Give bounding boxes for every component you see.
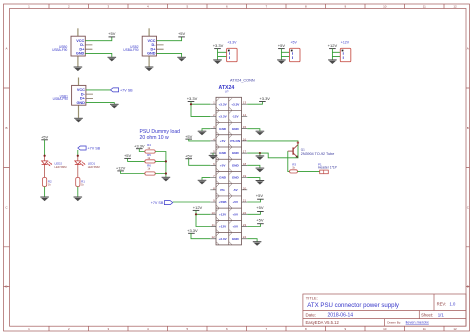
svg-text:PSU Dummy load: PSU Dummy load bbox=[140, 129, 181, 135]
pin LED2 cathode to R2 bbox=[44, 165, 46, 178]
ground (USB0 GND pin) bbox=[108, 57, 117, 61]
wire +3.3V to pin1 and pin2 bbox=[191, 102, 210, 117]
net flag +7V SB (ATX pin 9) bbox=[151, 201, 173, 205]
svg-text:10: 10 bbox=[383, 4, 387, 8]
resistor R5 bbox=[145, 153, 155, 163]
svg-text:GND: GND bbox=[232, 163, 240, 167]
wire pin15 GND bbox=[247, 129, 260, 131]
usb connector USB0 bbox=[52, 28, 92, 66]
text PSU dummy load note bbox=[140, 129, 181, 141]
svg-text:PG: PG bbox=[220, 188, 225, 192]
svg-text:GND: GND bbox=[219, 176, 227, 180]
wire USB2 GND to ground bbox=[157, 53, 182, 57]
node junction LED2 bbox=[44, 155, 46, 157]
wire pin17 gnd stub bbox=[259, 153, 261, 156]
svg-text:+3.3V: +3.3V bbox=[187, 96, 198, 101]
wire +5V to R5 bbox=[128, 158, 145, 161]
svg-text:12: 12 bbox=[211, 235, 215, 239]
resistor R4 bbox=[145, 143, 155, 153]
node junction Q1 collector bbox=[297, 142, 299, 144]
svg-text:USBA-F90: USBA-F90 bbox=[53, 97, 68, 101]
svg-text:24: 24 bbox=[243, 235, 247, 239]
svg-text:GND: GND bbox=[76, 101, 85, 105]
wire +3.3V to pin12 bbox=[191, 233, 210, 238]
ground (USB2 shell) bbox=[145, 67, 154, 71]
svg-text:+12V: +12V bbox=[193, 205, 203, 210]
connector J1 +3.3V binding post bbox=[227, 41, 238, 62]
svg-text:+5V: +5V bbox=[256, 205, 264, 210]
svg-text:+12V: +12V bbox=[219, 212, 227, 216]
title block bbox=[303, 294, 466, 326]
svg-text:+7V SB: +7V SB bbox=[88, 146, 101, 150]
ground (ATX pin 3) bbox=[198, 131, 207, 135]
svg-text:Sheet:: Sheet: bbox=[421, 313, 433, 318]
ground (ATX pin 15) bbox=[256, 131, 265, 135]
svg-text:+5V: +5V bbox=[185, 134, 193, 139]
resistor R6 bbox=[145, 163, 155, 175]
ground (ATX pin 19) bbox=[256, 181, 265, 185]
wire pin7 GND bbox=[202, 178, 210, 180]
wire USB0 VCC to +5V bbox=[85, 37, 112, 41]
power +5V (USB0) bbox=[108, 31, 116, 37]
wire USB2 VCC to +5V bbox=[157, 37, 182, 41]
svg-text:11: 11 bbox=[423, 4, 426, 8]
ground (USB1 shell) bbox=[74, 118, 83, 122]
svg-text:GND: GND bbox=[232, 176, 240, 180]
resistor R1 bbox=[76, 178, 86, 187]
svg-text:GND: GND bbox=[232, 127, 240, 131]
wire R3 to P1 bbox=[297, 170, 319, 172]
net flag +7V SB (USB1) bbox=[111, 88, 134, 92]
svg-text:GND: GND bbox=[232, 151, 240, 155]
svg-text:+5V: +5V bbox=[220, 139, 227, 143]
ground (ATX pin 18) bbox=[256, 168, 265, 172]
power +5V (USB2) bbox=[178, 31, 186, 37]
wire +5V post bbox=[281, 49, 289, 60]
LED LED2 bbox=[42, 161, 68, 169]
wire +3.3V to R4 bbox=[139, 149, 145, 152]
connector J2 +5V binding post bbox=[290, 41, 301, 62]
ground (LED2 string) bbox=[40, 197, 49, 201]
svg-text:+7V SB: +7V SB bbox=[120, 88, 133, 92]
svg-text:Drawn By:: Drawn By: bbox=[387, 320, 401, 324]
svg-text:ATX24_CONN: ATX24_CONN bbox=[230, 79, 255, 83]
wire pin21 to +5V bbox=[247, 199, 260, 202]
pin LED1 cathode to R1 bbox=[77, 165, 79, 178]
svg-text:GND: GND bbox=[232, 237, 240, 241]
usb connector USB1 bbox=[53, 78, 93, 118]
svg-text:11: 11 bbox=[423, 327, 426, 331]
node junction R6 common bbox=[165, 172, 167, 174]
svg-text:+3.3V: +3.3V bbox=[219, 237, 228, 241]
svg-text:REV:: REV: bbox=[437, 302, 447, 307]
wire pin22 to +5V bbox=[247, 212, 260, 215]
wire pin9 +5SB bbox=[173, 201, 211, 203]
power +3.3V (ATX pin 13) bbox=[259, 96, 270, 101]
svg-text:U?: U? bbox=[225, 89, 229, 93]
svg-text:A: A bbox=[467, 47, 469, 51]
svg-text:Q1: Q1 bbox=[301, 147, 305, 151]
svg-text:-12V: -12V bbox=[232, 115, 239, 119]
wire +5V to LED2 bbox=[44, 140, 46, 156]
svg-text:14: 14 bbox=[243, 113, 247, 117]
wire pin24 GND bbox=[247, 239, 257, 242]
pin LED1 anode bbox=[77, 156, 79, 161]
power +5V (ATX pin 4) bbox=[185, 134, 193, 139]
power +5V (LED2) bbox=[41, 135, 49, 140]
svg-text:16: 16 bbox=[243, 137, 247, 141]
svg-text:+3.3V: +3.3V bbox=[219, 115, 228, 119]
svg-text:lieven.merckx: lieven.merckx bbox=[406, 320, 429, 324]
transistor Q1 2N3904 bbox=[288, 145, 334, 158]
wire +5V to pin6 bbox=[189, 159, 211, 166]
wire +3.3V post bbox=[218, 49, 227, 60]
svg-text:23: 23 bbox=[243, 223, 247, 227]
wire pin5 GND bbox=[212, 153, 214, 155]
svg-text:ATX PSU connector power supply: ATX PSU connector power supply bbox=[307, 302, 400, 309]
svg-text:A: A bbox=[5, 47, 7, 51]
svg-text:1/1: 1/1 bbox=[438, 313, 445, 318]
svg-text:10: 10 bbox=[211, 211, 215, 215]
wire pin18 GND bbox=[247, 165, 260, 168]
power +12V (dummy load R6) bbox=[116, 166, 126, 171]
power +5V (dummy load R5) bbox=[124, 153, 132, 158]
svg-text:+12V: +12V bbox=[341, 41, 350, 45]
svg-text:22: 22 bbox=[243, 211, 247, 215]
svg-text:USBA-F90: USBA-F90 bbox=[123, 48, 138, 52]
svg-text:+5V: +5V bbox=[256, 217, 264, 222]
node junction LED1 bbox=[77, 155, 79, 157]
power +3.3V (output post J1) bbox=[213, 43, 224, 49]
power +3.3V (ATX pins 1-2) bbox=[187, 96, 198, 101]
svg-text:20: 20 bbox=[243, 186, 247, 190]
power +12V (ATX pins 10-11) bbox=[193, 205, 203, 210]
wire USB1 GND to ground bbox=[86, 103, 114, 105]
ground (ATX pin 7) bbox=[198, 180, 207, 184]
ground (post J2) bbox=[277, 60, 286, 64]
svg-text:18: 18 bbox=[243, 162, 247, 166]
svg-text:13: 13 bbox=[243, 101, 247, 105]
wire +12V to pin10 and pin11 bbox=[196, 210, 210, 226]
svg-text:21: 21 bbox=[243, 199, 247, 203]
svg-text:+3.3V: +3.3V bbox=[219, 102, 228, 106]
svg-text:+5V: +5V bbox=[256, 193, 264, 198]
svg-text:+5V: +5V bbox=[41, 135, 49, 140]
wire pin13 to +3.3V bbox=[247, 102, 262, 105]
svg-text:+5V: +5V bbox=[178, 31, 186, 36]
svg-text:+3.3V: +3.3V bbox=[227, 41, 237, 45]
wire Q1 base to R3 bbox=[288, 151, 290, 171]
resistor R3 bbox=[290, 162, 298, 173]
svg-text:+7V SB: +7V SB bbox=[151, 201, 164, 205]
header P1 bbox=[318, 162, 338, 173]
svg-text:+5V: +5V bbox=[220, 163, 227, 167]
svg-text:+5V: +5V bbox=[233, 212, 240, 216]
svg-text:B: B bbox=[467, 126, 469, 130]
usb connector USB2 bbox=[123, 28, 163, 66]
svg-text:+3.3V: +3.3V bbox=[134, 143, 145, 148]
wire +7V SB to LED1 bbox=[77, 150, 79, 156]
svg-text:GND: GND bbox=[219, 151, 227, 155]
svg-text:17: 17 bbox=[243, 150, 247, 154]
svg-text:GND: GND bbox=[219, 127, 227, 131]
wire R2 to ground bbox=[44, 187, 46, 198]
ground (ATX pin 24) bbox=[253, 242, 262, 246]
svg-text:19: 19 bbox=[243, 174, 247, 178]
wire +12V to R6 bbox=[121, 171, 145, 174]
svg-text:12: 12 bbox=[453, 327, 457, 331]
wire R1 to ground bbox=[77, 187, 79, 198]
svg-text:+5SB: +5SB bbox=[219, 200, 228, 204]
svg-text:+5V: +5V bbox=[185, 153, 193, 158]
wire +5V to pin4 bbox=[189, 139, 211, 141]
net flag +7V SB (LED1) bbox=[78, 146, 101, 150]
svg-text:+5V: +5V bbox=[278, 43, 286, 48]
node junction pin10 bbox=[195, 213, 197, 215]
svg-text:+12V: +12V bbox=[219, 225, 227, 229]
resistor R2 bbox=[43, 178, 53, 187]
svg-text:USBA-F90: USBA-F90 bbox=[52, 48, 67, 52]
wire dummy load common bbox=[155, 152, 166, 178]
wire USB0 GND to ground bbox=[85, 53, 112, 57]
svg-text:+5V: +5V bbox=[124, 153, 132, 158]
svg-text:B: B bbox=[5, 126, 7, 130]
ground (post J3) bbox=[328, 60, 337, 64]
svg-text:LED 5MM: LED 5MM bbox=[55, 165, 68, 169]
svg-text:+12V: +12V bbox=[328, 43, 338, 48]
connector U1 ATX24 bbox=[210, 79, 255, 245]
svg-text:+3.3V: +3.3V bbox=[187, 228, 198, 233]
svg-text:TITLE:: TITLE: bbox=[306, 295, 318, 300]
wire pin16 PS-ON loop to pin17 bbox=[247, 141, 298, 158]
svg-text:Header 1*1P: Header 1*1P bbox=[318, 166, 338, 170]
power +5V (output post J2) bbox=[278, 43, 286, 49]
svg-text:+3.3V: +3.3V bbox=[213, 43, 224, 48]
ground (ATX pin 5) bbox=[209, 155, 218, 159]
svg-text:PS-ON: PS-ON bbox=[230, 139, 241, 143]
LED LED1 bbox=[75, 161, 101, 169]
ground (USB0 shell) bbox=[74, 67, 83, 71]
node junction pin17 gnd bbox=[259, 152, 261, 154]
ground (LED1 string) bbox=[74, 197, 83, 201]
power +3.3V (ATX pin 12) bbox=[187, 228, 198, 233]
svg-text:LED1: LED1 bbox=[88, 161, 96, 165]
svg-text:20 ohm 10 w: 20 ohm 10 w bbox=[140, 135, 169, 141]
power +5V (ATX pin 23) bbox=[256, 217, 264, 223]
svg-text:+3.3V: +3.3V bbox=[231, 102, 240, 106]
pin LED2 anode bbox=[44, 156, 46, 161]
svg-text:10: 10 bbox=[383, 327, 387, 331]
svg-text:EasyEDA V5.5.12: EasyEDA V5.5.12 bbox=[306, 320, 340, 325]
svg-text:12: 12 bbox=[453, 4, 457, 8]
node junction pin1 bbox=[190, 103, 192, 105]
svg-text:LED2: LED2 bbox=[55, 161, 63, 165]
svg-text:2N3904 TO-92 Tube: 2N3904 TO-92 Tube bbox=[301, 152, 334, 156]
wire pin3 GND bbox=[202, 129, 210, 131]
wire pin23 to +5V bbox=[247, 224, 260, 227]
svg-text:+5V: +5V bbox=[233, 200, 240, 204]
node junction R5 common bbox=[165, 160, 167, 162]
wire USB1 VCC to +7V SB flag bbox=[86, 89, 111, 91]
svg-text:+12V: +12V bbox=[116, 166, 126, 171]
svg-text:15: 15 bbox=[243, 125, 247, 129]
power +3.3V (dummy load R4) bbox=[134, 143, 145, 148]
wire pin19 GND bbox=[247, 178, 260, 181]
power +5V (ATX pin 6) bbox=[185, 153, 193, 158]
svg-text:GND: GND bbox=[147, 52, 156, 56]
ground (USB1 GND pin) bbox=[110, 104, 119, 108]
svg-text:+5V: +5V bbox=[233, 225, 240, 229]
svg-text:+5V: +5V bbox=[291, 41, 298, 45]
svg-text:+5V: +5V bbox=[108, 31, 116, 36]
svg-text:+3.3V: +3.3V bbox=[259, 96, 270, 101]
power +5V (ATX pin 21) bbox=[256, 193, 264, 199]
power +5V (ATX pin 22) bbox=[256, 205, 264, 211]
svg-text:LED 5MM: LED 5MM bbox=[88, 165, 101, 169]
svg-text:2018-06-14: 2018-06-14 bbox=[328, 313, 354, 319]
svg-text:1.0: 1.0 bbox=[450, 302, 456, 307]
svg-text:Date:: Date: bbox=[306, 313, 317, 318]
power +12V (output post J3) bbox=[328, 43, 338, 49]
ground (post J1) bbox=[213, 60, 222, 64]
connector J3 +12V binding post bbox=[340, 41, 351, 62]
wire +12V post bbox=[332, 49, 340, 60]
ground (USB2 GND pin) bbox=[177, 57, 186, 61]
ground (ATX pin 17) bbox=[256, 156, 265, 160]
ground (dummy load) bbox=[162, 177, 171, 181]
svg-text:11: 11 bbox=[212, 223, 215, 227]
svg-text:GND: GND bbox=[76, 52, 85, 56]
